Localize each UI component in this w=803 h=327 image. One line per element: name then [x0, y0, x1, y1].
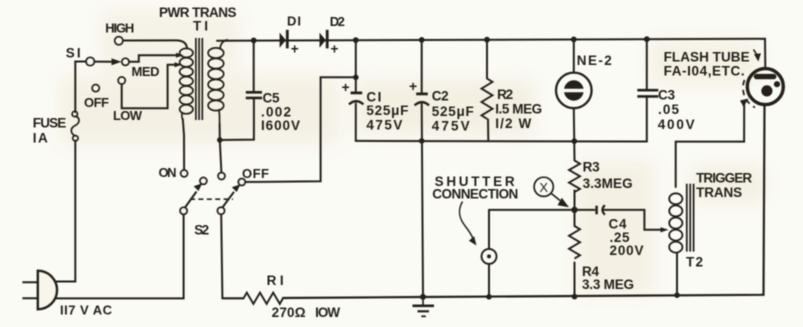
svg-text:TRANS: TRANS — [696, 185, 742, 200]
wire shutter terminal top lead — [488, 210, 490, 249]
capacitor C2 electrolytic — [415, 94, 429, 106]
diode D1 — [280, 30, 289, 49]
wire fuse top to S1 pole — [75, 62, 86, 113]
svg-text:+: + — [409, 78, 417, 94]
capacitor C3 — [637, 90, 658, 96]
wire R3 bottom to junction — [574, 191, 576, 210]
svg-text:HIGH: HIGH — [105, 21, 134, 36]
svg-text:FA-I04,ETC.: FA-I04,ETC. — [664, 64, 745, 79]
svg-text:C2: C2 — [432, 89, 449, 104]
svg-text:ON: ON — [159, 165, 177, 180]
svg-text:DI: DI — [287, 14, 301, 29]
wire C4 to trigger tap — [605, 210, 663, 230]
wire bottom ground rail — [223, 105, 765, 298]
wire S1 high contact to T1 primary top — [123, 40, 187, 48]
svg-text:3.3 MEG: 3.3 MEG — [582, 277, 634, 292]
svg-text:C3: C3 — [658, 88, 675, 103]
svg-text:400V: 400V — [658, 117, 695, 132]
svg-text:IA: IA — [33, 130, 48, 145]
node X callout — [534, 177, 569, 207]
resistor R3 vertical — [569, 161, 580, 193]
svg-text:OFF: OFF — [242, 166, 269, 181]
flash tube trigger dashed band — [743, 80, 755, 108]
svg-text:PWR TRANS: PWR TRANS — [159, 5, 237, 20]
wire C5 bottom to secondary lead — [220, 99, 254, 140]
svg-text:NE-2: NE-2 — [577, 53, 612, 68]
wire trigger secondary to flash tube trigger — [676, 104, 745, 187]
trigger transformer T2 — [661, 184, 694, 254]
svg-text:OFF: OFF — [84, 95, 109, 110]
resistor R1 horizontal — [244, 293, 284, 304]
svg-text:CONNECTION: CONNECTION — [432, 187, 518, 202]
switch S2 DPDT — [180, 170, 245, 215]
wire C2 top lead — [421, 40, 423, 93]
wire C1 top lead — [355, 40, 357, 92]
svg-text:475V: 475V — [432, 119, 470, 134]
wire R4 bottom to ground rail — [574, 263, 576, 297]
svg-text:C5: C5 — [263, 90, 280, 105]
svg-text:T2: T2 — [686, 255, 703, 270]
wire common bus middle — [356, 140, 647, 143]
capacitor C1 electrolytic — [349, 93, 363, 105]
wire junction to C4 — [575, 209, 595, 211]
svg-text:200V: 200V — [610, 243, 644, 258]
transformer T1 — [175, 38, 229, 124]
S2 gang dashed link — [190, 198, 233, 200]
wire C3 top lead — [646, 39, 648, 89]
svg-text:S2: S2 — [194, 223, 209, 238]
flash tube label arrow — [754, 50, 758, 56]
svg-text:+: + — [342, 79, 350, 95]
wire S2 OFF bleed to C1 top — [245, 77, 356, 182]
wire trigger transformer bottom lead — [676, 253, 678, 295]
wire junction to R4 top — [574, 210, 576, 226]
resistor R2 vertical — [482, 79, 493, 119]
diode D2 — [320, 30, 329, 49]
wire C3 bottom lead — [646, 98, 648, 142]
T2 tap arrowhead from C4 — [661, 227, 669, 232]
shutter connection terminal — [459, 202, 496, 264]
svg-text:IOW: IOW — [315, 305, 340, 320]
svg-text:MED: MED — [132, 64, 160, 79]
wire C5 top lead — [253, 40, 255, 91]
svg-text:+: + — [331, 42, 339, 57]
T1 secondary winding loops — [208, 40, 228, 124]
svg-text:475V: 475V — [366, 118, 402, 133]
flash tube trigger lead arrowhead — [740, 99, 749, 108]
T1 primary winding loops — [180, 48, 193, 119]
svg-text:D2: D2 — [330, 14, 345, 29]
svg-text:.05: .05 — [658, 102, 679, 117]
plug 117 V AC — [22, 271, 57, 310]
svg-text:R2: R2 — [497, 87, 513, 102]
wire S1 low tap to T1 primary — [122, 65, 177, 108]
wire S2 right pole down to rail — [221, 214, 222, 298]
svg-text:525μF: 525μF — [432, 104, 474, 119]
wire shutter connection horizontal — [489, 209, 575, 211]
capacitor C4 — [597, 205, 605, 215]
svg-text:LOW: LOW — [113, 108, 143, 123]
wire C1 bottom to common — [355, 104, 357, 141]
svg-text:FUSE: FUSE — [33, 116, 67, 131]
svg-text:I600V: I600V — [261, 118, 300, 133]
svg-text:+: + — [291, 42, 299, 57]
T1 med tap arrowhead — [176, 53, 184, 58]
T2 winding loops — [669, 193, 682, 204]
capacitor C5 — [246, 92, 262, 98]
svg-text:II7 V AC: II7 V AC — [60, 303, 113, 318]
flash tube V1 — [740, 50, 783, 108]
svg-text:SI: SI — [66, 46, 81, 61]
wire T1 secondary bottom to S2 contact — [220, 124, 222, 172]
wire NE-2 top lead — [573, 39, 575, 72]
svg-text:R3: R3 — [583, 160, 600, 175]
svg-text:RI: RI — [267, 273, 284, 288]
fuse F1 1A — [71, 111, 79, 141]
wire plug bottom lead to S2 left pole — [52, 215, 184, 299]
svg-text:FLASH TUBE: FLASH TUBE — [664, 50, 750, 65]
resistor R4 vertical — [569, 226, 580, 259]
svg-text:I.5 MEG: I.5 MEG — [495, 101, 542, 116]
switch S1 rotary — [86, 37, 129, 92]
svg-text:X: X — [539, 180, 548, 195]
wire top rail B+ — [217, 39, 765, 69]
wire NE-2 bottom to R3 — [573, 109, 576, 161]
svg-text:T I: T I — [193, 19, 208, 34]
wire R2 top lead — [486, 40, 488, 79]
ground symbol — [413, 297, 435, 316]
wire shutter terminal bottom lead — [488, 264, 490, 297]
wire S1 med tap to T1 primary — [129, 55, 179, 62]
svg-text:270Ω: 270Ω — [272, 305, 306, 320]
svg-text:525μF: 525μF — [366, 103, 408, 118]
T1 low tap arrowhead — [175, 62, 183, 67]
wire C2 bottom to ground — [422, 104, 423, 297]
svg-text:I/2 W: I/2 W — [495, 116, 531, 131]
svg-text:3.3MEG: 3.3MEG — [583, 176, 633, 191]
wire T1 primary bottom to S2 ON contact — [183, 119, 184, 170]
svg-text:TRIGGER: TRIGGER — [696, 171, 752, 186]
lamp NE-2 — [556, 73, 592, 109]
shutter label squiggle arrow — [459, 202, 473, 240]
wire R2 bottom lead — [487, 120, 489, 141]
wire plug top lead to fuse — [50, 141, 75, 282]
